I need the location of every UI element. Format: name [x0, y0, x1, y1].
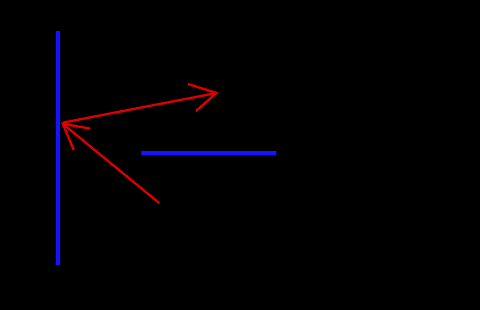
arrowhead of reflected ray	[188, 84, 217, 111]
reflected ray R1 (red arrow up-right)	[63, 84, 217, 123]
wire: incident ray shaft	[63, 124, 160, 204]
mirror M (blue vertical line)	[56, 31, 60, 265]
object O (blue horizontal segment)	[141, 151, 276, 155]
incident ray R2 (red arrow toward mirror)	[63, 124, 160, 204]
arrowhead of incident ray	[63, 124, 91, 150]
wire: reflected ray shaft	[63, 93, 217, 123]
